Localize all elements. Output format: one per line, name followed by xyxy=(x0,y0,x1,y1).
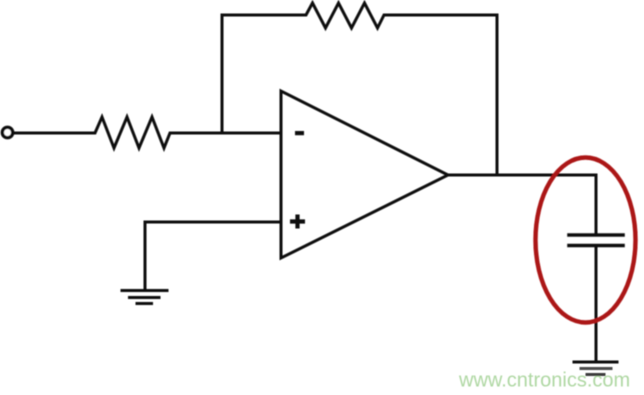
svg-text:www.cntronics.com: www.cntronics.com xyxy=(458,370,630,392)
